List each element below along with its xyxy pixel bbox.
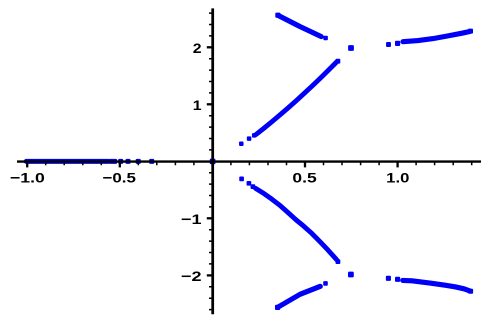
y minor ticks xyxy=(209,13,213,310)
svg-text:1: 1 xyxy=(193,98,202,114)
y major tick 1 xyxy=(207,103,213,105)
scatter: upper right branch leading dots xyxy=(386,42,391,47)
scatter: lower-left ascending branch end dot xyxy=(323,281,328,286)
y major tick -2 xyxy=(207,274,213,276)
scatter: lower diagonal branch solid curve xyxy=(256,188,337,259)
scatter: upper diagonal branch leading dots xyxy=(239,141,244,146)
scatter: lower diagonal branch leading dots xyxy=(239,177,244,182)
svg-text:2: 2 xyxy=(193,41,202,57)
svg-text:0.5: 0.5 xyxy=(292,171,316,187)
scatter: lower diagonal branch end dot xyxy=(336,259,341,264)
svg-text:−1.0: −1.0 xyxy=(10,171,45,187)
y-axis (imaginary axis spine) xyxy=(211,8,214,314)
scatter: upper diagonal branch end dot xyxy=(336,59,341,64)
scatter: upper isolated dot near (0.75, 2.0) xyxy=(348,45,354,51)
x major tick 1.0 xyxy=(396,162,398,168)
x major tick -1.0 xyxy=(26,162,28,168)
scatter: root marker at origin (under axes) xyxy=(210,159,216,165)
svg-text:−0.5: −0.5 xyxy=(103,171,137,187)
x minor ticks xyxy=(46,162,472,166)
scatter: lower right branch end dot xyxy=(468,289,473,294)
scatter: lower-left ascending branch solid curve xyxy=(278,286,320,307)
scatter: upper right branch solid curve xyxy=(403,32,470,42)
svg-text:−2: −2 xyxy=(181,269,202,285)
svg-text:1.0: 1.0 xyxy=(386,171,409,187)
scatter: lower isolated dot near (0.75, -2.0) xyxy=(348,272,354,278)
x major tick 0.5 xyxy=(304,162,306,168)
scatter: upper-left descending branch solid curve xyxy=(278,15,321,36)
scatter: real-axis discrete roots xyxy=(109,159,114,164)
scatter: real-axis root cluster solid segment xyxy=(26,159,108,164)
scatter: upper right branch end dot xyxy=(468,29,473,34)
scatter: lower right branch solid curve xyxy=(403,280,470,291)
x-axis (real axis spine) xyxy=(17,160,481,162)
y major tick 2 xyxy=(207,46,213,48)
svg-text:−1: −1 xyxy=(181,212,202,228)
scatter: upper-left descending branch start blob xyxy=(275,13,280,18)
x major tick -0.5 xyxy=(119,162,121,168)
scatter: lower-left ascending branch start blob xyxy=(275,305,280,310)
scatter: upper diagonal branch solid curve xyxy=(256,62,337,135)
scatter: upper-left descending branch end dot xyxy=(323,36,328,41)
y major tick -1 xyxy=(207,217,213,219)
scatter: lower right branch leading dots xyxy=(386,276,391,281)
